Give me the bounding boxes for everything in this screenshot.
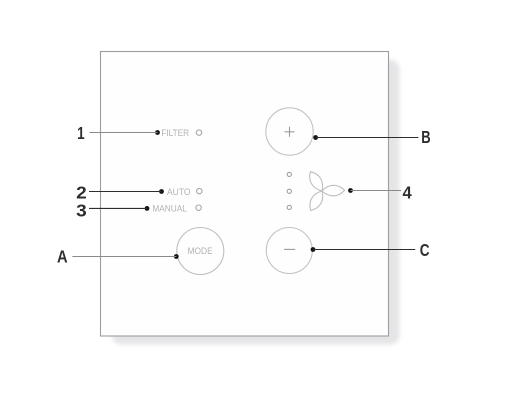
svg-text:MODE: MODE xyxy=(188,246,213,256)
callout line A xyxy=(72,256,176,258)
speed dot 1 xyxy=(287,172,291,176)
panel drop shadow xyxy=(112,60,400,345)
svg-text:4: 4 xyxy=(403,182,412,202)
panel face xyxy=(101,52,389,337)
mode dot (callout A anchor) xyxy=(174,254,179,259)
plus button circle xyxy=(266,108,313,155)
MANUAL indicator circle xyxy=(196,205,201,210)
callout line B xyxy=(316,137,419,139)
minus sign xyxy=(284,248,295,250)
plus dot (callout B anchor) xyxy=(313,135,318,140)
manual dot (callout 3 anchor) xyxy=(145,206,150,211)
filter indicator dot (callout 1 anchor) xyxy=(155,130,160,135)
svg-text:B: B xyxy=(421,127,430,147)
svg-text:AUTO: AUTO xyxy=(167,187,191,198)
callout line C xyxy=(313,249,415,251)
AUTO indicator circle xyxy=(197,188,202,193)
callout line 4 xyxy=(351,190,402,192)
speed dot 2 xyxy=(287,189,291,193)
MODE button circle xyxy=(177,228,224,275)
svg-text:MANUAL: MANUAL xyxy=(152,204,187,215)
minus dot (callout C anchor) xyxy=(311,247,316,252)
svg-text:FILTER: FILTER xyxy=(161,128,189,139)
auto dot (callout 2 anchor) xyxy=(159,189,164,194)
svg-text:1: 1 xyxy=(77,123,85,143)
callout line 1 xyxy=(90,132,158,134)
callout line 3 xyxy=(89,207,147,209)
fan dot (callout 4 anchor) xyxy=(348,188,353,193)
svg-text:A: A xyxy=(57,246,68,266)
fan icon xyxy=(306,169,345,213)
FILTER indicator circle xyxy=(196,130,201,135)
plus sign xyxy=(285,127,295,137)
svg-text:C: C xyxy=(420,240,430,260)
callout line 2 xyxy=(89,191,162,193)
speed dot 3 xyxy=(287,205,291,209)
minus button circle xyxy=(266,228,312,274)
svg-text:3: 3 xyxy=(76,200,87,220)
